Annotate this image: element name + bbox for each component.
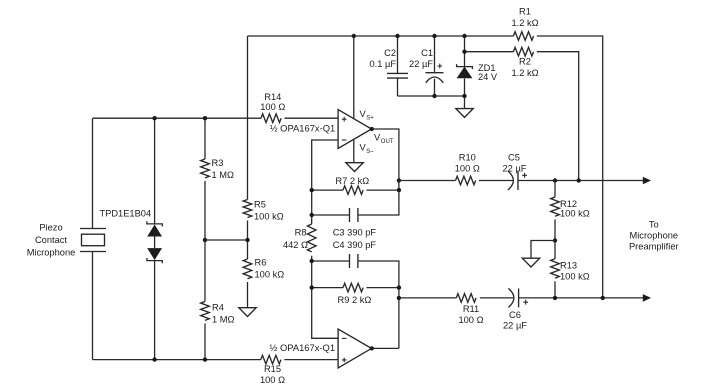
svg-text:442 Ω: 442 Ω — [283, 240, 308, 250]
wire R11 row — [399, 297, 644, 299]
node ZD1 bottom — [462, 94, 466, 98]
wire R3/R4 column — [204, 118, 206, 359]
svg-text:½ OPA167x-Q1: ½ OPA167x-Q1 — [270, 343, 336, 353]
label To Microphone Preamplifier — [629, 219, 679, 251]
svg-text:C1: C1 — [421, 48, 433, 58]
resistor R12 — [551, 197, 590, 218]
resistor R14 — [260, 92, 285, 123]
node R12/R13 mid — [553, 238, 557, 242]
wire supply rail — [248, 36, 603, 298]
capacitor C6 — [503, 288, 528, 330]
node R9 left — [310, 285, 314, 289]
node R4 bottom — [203, 357, 207, 361]
node supply VS+ — [352, 34, 356, 38]
svg-text:1 MΩ: 1 MΩ — [212, 314, 234, 324]
svg-text:100 Ω: 100 Ω — [260, 375, 285, 385]
resistor R3 — [201, 158, 234, 180]
resistor R6 — [243, 258, 284, 280]
svg-text:0.1 µF: 0.1 µF — [369, 59, 396, 69]
svg-text:OUT: OUT — [381, 139, 394, 145]
svg-text:R1: R1 — [519, 7, 531, 17]
svg-text:R15: R15 — [264, 364, 281, 374]
node supply ZD1 — [462, 34, 466, 38]
svg-text:100 kΩ: 100 kΩ — [560, 208, 590, 218]
svg-text:To: To — [649, 219, 659, 229]
pin VS+ label U1 — [360, 109, 375, 121]
node C6/R13 — [553, 296, 557, 300]
node TPD top — [152, 116, 156, 120]
svg-text:100 Ω: 100 Ω — [260, 102, 285, 112]
svg-text:C6: C6 — [509, 310, 521, 320]
svg-text:100 Ω: 100 Ω — [458, 315, 483, 325]
svg-text:Piezo: Piezo — [39, 222, 62, 232]
svg-text:R3: R3 — [212, 158, 224, 168]
wire TPD column — [154, 118, 156, 359]
capacitor C1 — [409, 48, 443, 83]
wire C3 row left — [312, 214, 350, 216]
svg-text:Microphone: Microphone — [27, 248, 76, 258]
svg-text:½ OPA167x-Q1: ½ OPA167x-Q1 — [270, 124, 336, 134]
node R3/R5 mid — [203, 238, 207, 242]
capacitor C2 — [369, 48, 408, 78]
wire bottom input rail (piezo to U2 +IN) — [93, 359, 339, 361]
resistor R2 — [511, 47, 538, 78]
svg-text:R6: R6 — [255, 258, 267, 268]
resistor R8 — [283, 224, 316, 252]
svg-text:Preamplifier: Preamplifier — [629, 241, 679, 251]
resistor R1 — [511, 7, 538, 41]
pin VS- label U1 — [360, 143, 375, 155]
capacitor C3 — [333, 208, 377, 237]
wire ground stub — [531, 241, 555, 259]
ground below U1 — [346, 163, 363, 172]
ground below R6 — [239, 308, 256, 317]
svg-text:100 kΩ: 100 kΩ — [560, 271, 590, 281]
svg-text:S+: S+ — [366, 115, 374, 121]
piezo contact microphone (crystal symbol) — [27, 222, 106, 257]
svg-text:1 MΩ: 1 MΩ — [212, 170, 234, 180]
node R7 left — [310, 188, 314, 192]
wire R10 row — [399, 180, 644, 182]
resistor R7 — [335, 176, 369, 194]
wire R9 row — [312, 287, 399, 289]
TVS diode TPD1E1B04 — [99, 208, 162, 263]
wire R12 column — [554, 181, 556, 298]
node R5/R6 mid — [245, 238, 249, 242]
node R2 feed — [577, 178, 581, 182]
pin VOUT label U1 — [374, 133, 394, 145]
svg-text:1.2 kΩ: 1.2 kΩ — [511, 18, 538, 28]
svg-text:R13: R13 — [560, 260, 577, 270]
wire C2 column — [397, 36, 399, 96]
wire U1 -IN / left column — [312, 140, 339, 338]
svg-text:100 kΩ: 100 kΩ — [255, 270, 285, 280]
ground mid divider — [522, 258, 539, 267]
svg-text:TPD1E1B04: TPD1E1B04 — [99, 208, 151, 218]
resistor R13 — [551, 259, 590, 282]
svg-text:C5: C5 — [508, 153, 520, 163]
resistor R5 — [243, 199, 284, 221]
wire U1 supply stub — [353, 36, 355, 163]
node C5/R12 — [553, 178, 557, 182]
resistor R15 — [260, 355, 285, 385]
node R3 top — [203, 116, 207, 120]
wire C bottom tie — [398, 95, 465, 97]
node C4 left — [310, 259, 314, 263]
node U2 out tap — [397, 296, 401, 300]
svg-text:100 kΩ: 100 kΩ — [254, 211, 284, 221]
node C1 bottom — [432, 94, 436, 98]
resistor R4 — [201, 302, 235, 325]
node R9 right — [397, 285, 401, 289]
op-amp U2 — [338, 329, 371, 368]
svg-text:22 µF: 22 µF — [503, 164, 527, 174]
svg-text:24 V: 24 V — [478, 72, 498, 82]
node C3 left — [310, 213, 314, 217]
wire C4 row — [312, 261, 399, 348]
wire R7 row — [312, 189, 399, 191]
wire piezo column — [92, 118, 94, 359]
resistor R11 — [456, 294, 483, 325]
resistor R10 — [455, 153, 480, 185]
svg-text:22 µF: 22 µF — [409, 59, 433, 69]
wire ZD1 column — [464, 36, 466, 109]
node U2 output tip — [370, 346, 374, 350]
svg-text:R5: R5 — [254, 199, 266, 209]
svg-text:R4: R4 — [212, 302, 224, 312]
svg-text:R11: R11 — [463, 304, 479, 314]
node R7 right — [397, 188, 401, 192]
svg-text:R2: R2 — [519, 56, 531, 66]
svg-text:1.2 kΩ: 1.2 kΩ — [511, 68, 538, 78]
op-amp U1 — [338, 110, 371, 149]
wire R2 row — [465, 52, 579, 181]
node supply C1 — [432, 34, 436, 38]
arrow output 1 — [643, 177, 651, 185]
node U1 out tap — [397, 178, 401, 182]
svg-text:100 Ω: 100 Ω — [455, 164, 480, 174]
ground below ZD1 — [456, 109, 473, 118]
svg-text:22 µF: 22 µF — [503, 320, 527, 330]
wire R5/R6 column — [247, 36, 249, 308]
node R1 feed — [601, 296, 605, 300]
wire top input rail (piezo to U1 +IN) — [93, 117, 339, 119]
svg-text:R10: R10 — [459, 153, 476, 163]
node TPD bottom — [152, 357, 156, 361]
svg-text:R8: R8 — [295, 227, 307, 237]
svg-text:C4 390 pF: C4 390 pF — [333, 240, 377, 250]
wire C1 column — [434, 36, 436, 96]
wire mid tie — [205, 239, 248, 241]
svg-text:S–: S– — [366, 149, 374, 155]
capacitor C5 — [503, 153, 527, 190]
svg-text:Contact: Contact — [35, 235, 67, 245]
arrow output 2 — [643, 294, 651, 302]
node U1 output tip — [370, 127, 374, 131]
wire U1 output — [358, 129, 399, 215]
zener diode ZD1 — [457, 63, 498, 82]
resistor R9 — [337, 283, 371, 305]
capacitor C4 — [333, 240, 377, 268]
svg-text:R12: R12 — [560, 199, 577, 209]
svg-text:C2: C2 — [384, 48, 396, 58]
svg-text:R14: R14 — [264, 92, 281, 102]
svg-text:R7 2 kΩ: R7 2 kΩ — [335, 176, 369, 186]
svg-text:Microphone: Microphone — [630, 230, 679, 240]
node ZD1 R2 tap — [462, 50, 466, 54]
svg-text:R9 2 kΩ: R9 2 kΩ — [337, 295, 371, 305]
node supply C2 — [395, 34, 399, 38]
wire U2 output — [372, 347, 399, 349]
svg-text:C3 390 pF: C3 390 pF — [333, 227, 377, 237]
